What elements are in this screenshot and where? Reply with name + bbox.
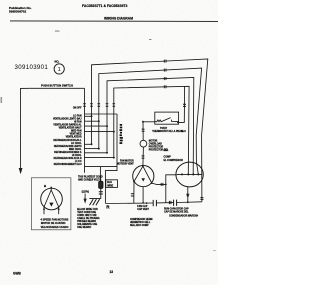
header rule line: [10, 20, 218, 23]
svg-text:BLK: BLK: [164, 150, 169, 152]
header wiring diagram title: [104, 17, 133, 21]
fan capacitor label: [137, 205, 149, 211]
switch terminal labels: [53, 107, 82, 166]
compressor bottom wire: [187, 187, 189, 203]
svg-text:CAP VENT: CAP VENT: [137, 208, 149, 211]
overload label: [149, 141, 169, 152]
svg-text:CORD ONLY FOR: CORD ONLY FOR: [77, 215, 97, 217]
svg-text:TSTAT: TSTAT: [160, 127, 168, 130]
connector ticks on rail L1: [164, 60, 166, 63]
node R label: [106, 205, 110, 210]
run capacitor label: [164, 208, 198, 218]
compressor terminal dots C S R: [181, 173, 199, 175]
svg-text:FAC053S7T1 & FAC053S9T3: FAC053S7T1 & FAC053S9T3: [82, 4, 128, 8]
wire mesh row 1: [85, 115, 92, 117]
push button switch box: [30, 88, 85, 172]
blue wire label box: [106, 180, 118, 188]
connector ticks before run capacitor: [169, 201, 171, 204]
header publication text: [9, 6, 32, 14]
compressor caption: [130, 219, 153, 227]
rail L3: [107, 78, 194, 175]
svg-text:USE NEGRO: USE NEGRO: [77, 227, 91, 229]
svg-text:VENTILATEUR: VENTILATEUR: [66, 135, 82, 138]
svg-text:VENTILATEUR HAUT: VENTILATEUR HAUT: [59, 126, 83, 129]
wire mesh row 4: [85, 131, 114, 133]
svg-text:MOTOR DE CUATRO: MOTOR DE CUATRO: [41, 222, 66, 225]
svg-text:FAN CAP: FAN CAP: [137, 205, 148, 208]
svg-text:MOTOR: MOTOR: [149, 141, 158, 143]
svg-text:BLACK WIRE FOR: BLACK WIRE FOR: [77, 208, 98, 211]
wire mesh row 8: [85, 157, 114, 159]
connector ticks: [142, 129, 145, 131]
svg-text:115 VOLTS: 115 VOLTS: [89, 179, 101, 181]
thermostat left wire: [143, 121, 155, 123]
svg-text:SELLADO COMP: SELLADO COMP: [130, 224, 149, 227]
svg-text:FAN MOTOR: FAN MOTOR: [120, 160, 134, 163]
svg-text:WHT: WHT: [181, 131, 187, 133]
rail L2: [99, 68, 202, 174]
callout circle 1: [54, 60, 64, 74]
svg-text:COMPRESOR HERM: COMPRESOR HERM: [130, 219, 153, 221]
vertical note text beside mesh: [119, 124, 122, 144]
fan motor windings: [134, 166, 152, 183]
svg-text:TEST CORD: TEST CORD: [89, 176, 103, 178]
svg-text:VENTILADOR RAPIDO AL: VENTILADOR RAPIDO AL: [53, 123, 82, 126]
fan motor top terminal dot: [142, 165, 144, 167]
compressor label: [164, 156, 184, 162]
svg-text:VENT MED: VENT MED: [70, 133, 82, 135]
wire mesh outer loop top: [85, 113, 118, 115]
svg-text:13: 13: [110, 270, 114, 274]
svg-text:MOTEUR VENT: MOTEUR VENT: [117, 164, 134, 166]
connector ticks on fan right wire: [161, 183, 163, 186]
wire below resistor: [89, 188, 101, 198]
overload protector OL1: [140, 140, 147, 147]
test cord caption: [77, 208, 100, 229]
fan motor detail box: [31, 178, 71, 230]
svg-text:PUSH BUTTON SWITCH: PUSH BUTTON SWITCH: [41, 84, 73, 88]
connector ticks on rail L3: [164, 77, 166, 80]
svg-text:HERMETICO SELL: HERMETICO SELL: [130, 222, 151, 224]
connector ticks on compressor bottom wire: [186, 193, 189, 195]
junction dot on compressor feed: [165, 184, 167, 186]
svg-text:(115V): (115V): [82, 191, 90, 194]
detail motor circle: [41, 188, 63, 210]
svg-text:HI COOL: HI COOL: [72, 155, 82, 157]
connector ticks on rail L2: [164, 69, 166, 72]
resistor R capsule: [99, 181, 103, 188]
svg-text:WIRE: WIRE: [107, 185, 113, 187]
fan motor left terminal dot: [133, 181, 135, 183]
junction dots in mesh: [91, 115, 115, 158]
compressor C1 circle: [176, 162, 203, 187]
test cord wire from switch: [99, 167, 101, 181]
compressor feed wire: [166, 175, 177, 203]
part number 309103901: [15, 64, 49, 71]
svg-text:REFROIDISSEMENT HAU: REFROIDISSEMENT HAU: [54, 163, 82, 166]
connector ticks on fan left wire: [131, 194, 134, 196]
svg-text:HI FAN: HI FAN: [74, 120, 82, 123]
svg-text:5995309702: 5995309702: [9, 10, 26, 14]
plug arrow: [84, 194, 86, 200]
fan motor M1 label: [117, 160, 134, 166]
compressor terminal chord: [177, 173, 203, 175]
wire overload to fan motor: [142, 147, 145, 166]
connector ticks on bus verticals: [83, 104, 115, 106]
svg-text:309103901: 309103901: [15, 64, 49, 71]
svg-text:TEST CORD USE: TEST CORD USE: [77, 212, 96, 214]
footer code: [13, 272, 21, 276]
svg-text:REFRIGERACION LENTO: REFRIGERACION LENTO: [54, 145, 82, 148]
115V label: [82, 191, 90, 194]
detail caption: [41, 219, 69, 229]
wire mesh row 2: [85, 120, 99, 122]
thermostat U1 box: [155, 112, 179, 124]
svg-text:1: 1: [58, 67, 61, 73]
svg-text:THERMOSTAT DE LA PIECE: THERMOSTAT DE LA PIECE: [152, 130, 183, 133]
svg-text:PROTECTOR: PROTECTOR: [149, 147, 164, 149]
detail motor lower stubs: [44, 207, 59, 214]
svg-text:VENTILADOR LENTO BAJ: VENTILADOR LENTO BAJ: [53, 117, 82, 120]
thermostat feed stub from L4: [178, 86, 185, 122]
svg-text:REFRIGERACION MED A: REFRIGERACION MED A: [54, 151, 82, 154]
fan bottom wire: [142, 187, 144, 203]
thermostat right terminal dot: [177, 122, 179, 124]
junction dot node T: [142, 121, 144, 123]
svg-text:LO FAN: LO FAN: [73, 114, 82, 117]
wire color label BLK: [164, 150, 169, 152]
svg-text:MED FAN: MED FAN: [71, 129, 82, 132]
svg-text:CONDENSADOR MARCHA: CONDENSADOR MARCHA: [169, 214, 198, 217]
node B label: [44, 184, 47, 188]
svg-text:PRUEBA NEGRO: PRUEBA NEGRO: [77, 220, 96, 223]
rail L4: [114, 86, 189, 174]
svg-text:L1 CC: L1 CC: [75, 161, 82, 163]
svg-text:VELOCIDADES USADO: VELOCIDADES USADO: [41, 226, 69, 229]
capacitor row wire: [105, 202, 201, 204]
wire mesh outer loop right and down to R wire: [105, 114, 117, 203]
wire mesh bottom row: [85, 166, 118, 168]
svg-text:SOLAMENTE USE: SOLAMENTE USE: [77, 223, 97, 226]
svg-text:WIRING DIAGRAM: WIRING DIAGRAM: [104, 17, 133, 21]
scan smudges: [1, 31, 217, 251]
svg-text:GWB: GWB: [13, 272, 21, 276]
svg-text:REFRIGERACION BAJA L: REFRIGERACION BAJA L: [53, 139, 82, 142]
wire mesh row 7: [85, 152, 108, 154]
header model numbers: [82, 4, 128, 8]
connector ticks on resistor wire: [99, 192, 103, 194]
svg-text:BLU: BLU: [107, 182, 112, 184]
junction dot before fan capacitor: [146, 202, 148, 204]
svg-text:LO COOL: LO COOL: [71, 143, 82, 145]
wire color label WHT: [181, 131, 187, 133]
svg-text:OVERLOAD: OVERLOAD: [149, 143, 162, 146]
detail motor top stub: [50, 187, 52, 191]
junction dot compressor bottom: [187, 202, 189, 204]
svg-text:RUN CAPACITOR CAP: RUN CAPACITOR CAP: [164, 208, 189, 211]
svg-text:MED COOL: MED COOL: [69, 149, 82, 151]
svg-text:CAP DE MARCHE DEL: CAP DE MARCHE DEL: [164, 211, 189, 214]
connector ticks on thermostat stub: [183, 104, 186, 106]
fan capacitor C2 plates: [153, 200, 156, 206]
fan motor M1 circle: [133, 166, 154, 187]
wire mesh row 5: [85, 143, 92, 145]
svg-text:NO.: NO.: [55, 60, 60, 64]
svg-text:REFRIGERACION ALTA R: REFRIGERACION ALTA R: [54, 157, 82, 160]
svg-text:ON OFF: ON OFF: [73, 107, 82, 109]
arrow to switch box: [21, 88, 30, 168]
fan right wire: [152, 183, 166, 184]
connector ticks at row right end: [200, 198, 203, 200]
svg-text:EL COMPRESOR: EL COMPRESOR: [164, 159, 184, 162]
connector ticks on rail L4: [164, 85, 166, 88]
thermostat internals: [155, 118, 179, 122]
push button switch label: [41, 84, 73, 88]
thermostat label: [152, 127, 183, 133]
wire mesh row 3: [85, 125, 108, 127]
detail motor windings: [44, 190, 59, 207]
test cord labels: [78, 176, 103, 181]
fan left wire down to capacitor row: [133, 182, 135, 203]
svg-text:CABLE DE PRUEBA: CABLE DE PRUEBA: [77, 217, 100, 220]
rail L1 (outer loop): [92, 59, 208, 202]
wire mesh row 6: [85, 148, 99, 150]
svg-text:4 SPEED FAN MOTORS: 4 SPEED FAN MOTORS: [41, 219, 69, 222]
run capacitor C3 plates: [174, 200, 177, 206]
scan noise overlay: [0, 0, 1, 1]
fan motor right terminal dot: [151, 182, 153, 184]
ground symbol: [90, 199, 100, 205]
wire thermostat to overload: [142, 122, 144, 141]
footer page number: [110, 270, 114, 274]
connector ticks: [142, 156, 145, 158]
